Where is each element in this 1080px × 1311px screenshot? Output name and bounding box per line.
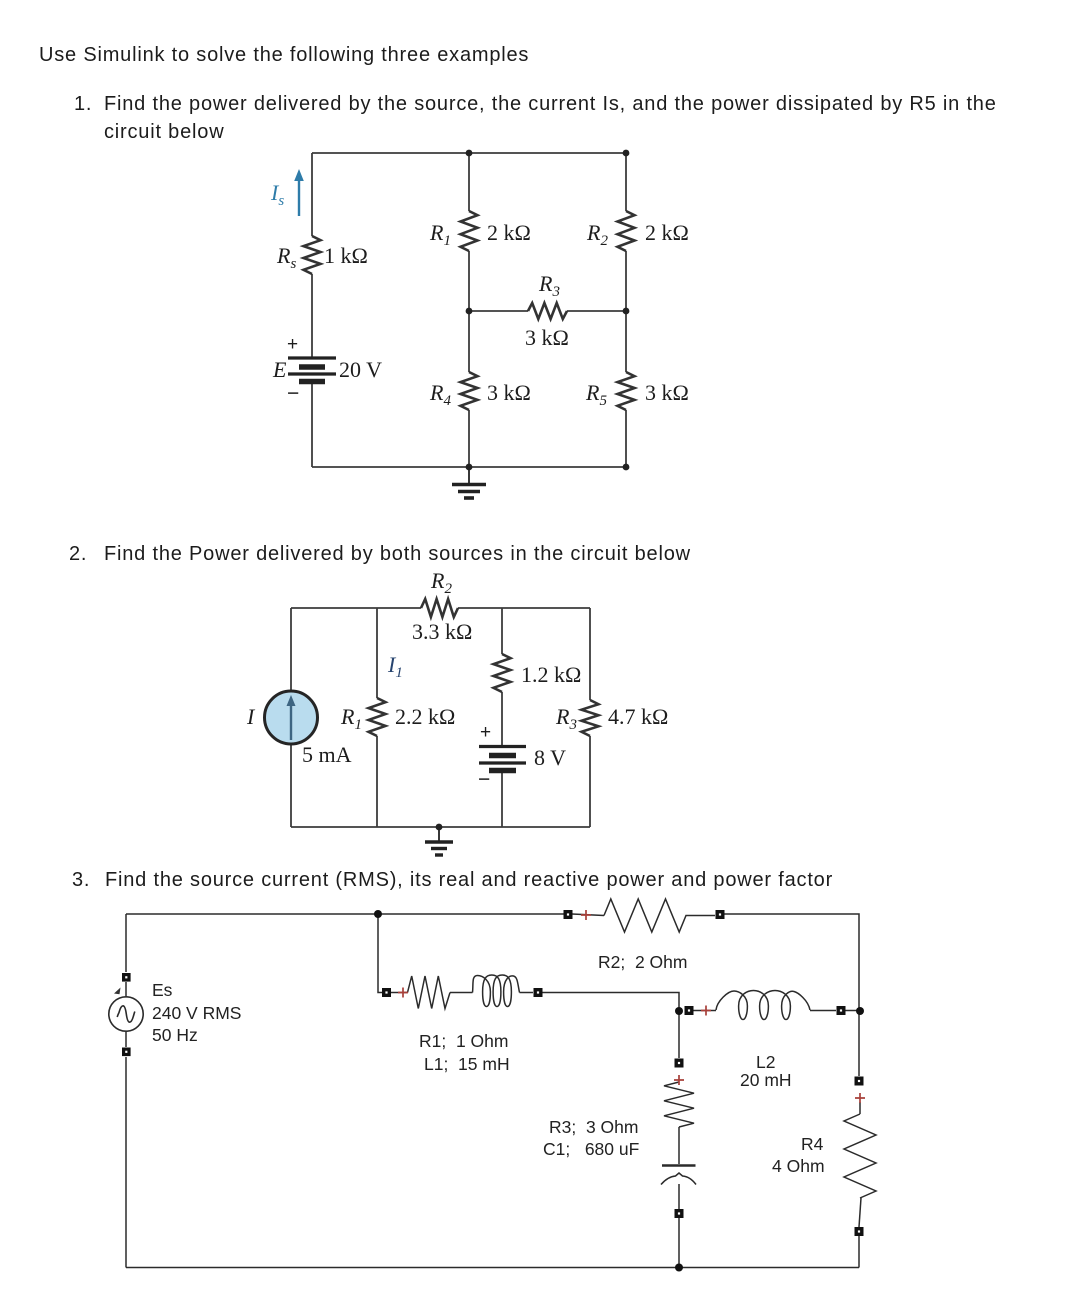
resistor R1 (2.2k)	[369, 698, 386, 736]
svg-text:20 mH: 20 mH	[740, 1070, 792, 1090]
item 1 text	[74, 90, 92, 118]
resistor R3	[664, 1082, 694, 1127]
svg-text:Is: Is	[270, 180, 284, 209]
wire Es bottom stub	[125, 1032, 127, 1047]
svg-text:1.2 kΩ: 1.2 kΩ	[521, 662, 581, 687]
labels circuit 3	[152, 952, 825, 1176]
node L2/right-wire junction	[856, 1007, 864, 1015]
wire L2 port to right wire	[845, 1010, 859, 1012]
svg-text:3.3 kΩ: 3.3 kΩ	[412, 619, 472, 644]
AC source Es	[109, 997, 143, 1031]
capacitor C1 plate bottom	[661, 1173, 696, 1185]
svg-text:3 kΩ: 3 kΩ	[525, 325, 569, 350]
wire R4 out	[859, 1198, 861, 1227]
wire R1 branch	[376, 608, 378, 827]
wire left branch middle	[311, 274, 313, 357]
polarity plus L2	[701, 1006, 711, 1016]
resistor R4	[844, 1114, 876, 1198]
ground	[452, 467, 486, 498]
node ground junction	[436, 824, 443, 831]
port R3C1 input	[675, 1059, 684, 1068]
wire L2 out	[810, 1010, 836, 1012]
wire R2 plus stub	[572, 914, 604, 916]
svg-text:R2; 2 Ohm: R2; 2 Ohm	[598, 952, 687, 972]
heading text	[39, 41, 529, 69]
wire cap to port	[678, 1184, 680, 1209]
resistor R3	[528, 303, 567, 319]
svg-text:R2: R2	[586, 220, 608, 249]
svg-text:240 V RMS: 240 V RMS	[152, 1003, 241, 1023]
wire top right	[458, 607, 590, 609]
svg-text:R1: R1	[340, 704, 362, 733]
current arrow Is	[294, 169, 304, 216]
svg-text:3 kΩ: 3 kΩ	[645, 380, 689, 405]
svg-text:4.7 kΩ: 4.7 kΩ	[608, 704, 668, 729]
wire R1-L1 link	[450, 992, 473, 994]
wire R4 port to bottom	[858, 1236, 860, 1268]
node A (R1/R3/R4 junction)	[466, 308, 473, 315]
wire bottom	[291, 826, 590, 828]
svg-text:R5: R5	[585, 380, 607, 409]
wire L1 out	[520, 992, 534, 994]
port Es terminal 2	[122, 1048, 131, 1057]
resistor R3 (4.7k)	[582, 700, 599, 736]
polarity plus R1	[398, 988, 408, 998]
item 3 text	[72, 866, 90, 894]
wire bottom	[312, 466, 626, 468]
wire middle branch center	[468, 251, 470, 372]
svg-text:−: −	[478, 768, 490, 791]
node bottom-right junction	[623, 464, 630, 471]
node top-middle junction	[466, 150, 473, 157]
ground	[425, 827, 453, 855]
capacitor C1 plate top	[662, 1164, 696, 1166]
svg-text:R4: R4	[429, 380, 451, 409]
svg-text:3 kΩ: 3 kΩ	[487, 380, 531, 405]
svg-text:R3: R3	[555, 704, 577, 733]
wire R3 right	[567, 310, 626, 312]
port Es terminal 1	[122, 973, 131, 982]
polarity plus R2	[581, 910, 591, 920]
node B (R2/R3/R5 junction)	[623, 308, 630, 315]
svg-text:L2: L2	[756, 1052, 775, 1072]
svg-text:2.2 kΩ: 2.2 kΩ	[395, 704, 455, 729]
svg-text:R4: R4	[801, 1134, 824, 1154]
battery 8V	[479, 747, 526, 771]
port R1L1 input	[382, 988, 391, 997]
wire right branch upper	[625, 153, 627, 211]
port R4 input	[855, 1077, 864, 1086]
svg-text:Rs: Rs	[276, 243, 296, 272]
svg-text:2 kΩ: 2 kΩ	[645, 220, 689, 245]
wire bottom	[126, 1267, 859, 1269]
wire left branch upper	[290, 608, 292, 691]
labels circuit 1	[270, 180, 689, 409]
wire left upper	[125, 914, 127, 972]
wire mid branch center	[501, 692, 503, 746]
wire R4 stub	[859, 1102, 861, 1114]
svg-text:1 kΩ: 1 kΩ	[324, 243, 368, 268]
resistor R2	[618, 211, 635, 251]
svg-text:+: +	[287, 334, 298, 355]
resistor Rs	[304, 236, 321, 274]
node top-right junction	[623, 150, 630, 157]
svg-text:8 V: 8 V	[534, 745, 566, 770]
resistor R1	[461, 211, 478, 251]
svg-text:R1; 1 Ohm: R1; 1 Ohm	[419, 1031, 508, 1051]
wire middle branch upper	[468, 153, 470, 211]
svg-text:4 Ohm: 4 Ohm	[772, 1156, 825, 1176]
svg-text:2 kΩ: 2 kΩ	[487, 220, 531, 245]
inductor L1	[473, 975, 520, 1007]
svg-text:−: −	[287, 382, 299, 405]
wire top	[126, 913, 568, 915]
wire middle branch lower	[468, 410, 470, 467]
svg-text:E: E	[272, 357, 287, 382]
wire mid branch lower	[501, 771, 503, 827]
resistor R1	[408, 976, 451, 1009]
wire top	[312, 152, 626, 154]
wire left lower	[125, 1057, 127, 1268]
svg-text:R3: R3	[538, 271, 560, 300]
wire drop to R1	[378, 914, 382, 993]
svg-text:+: +	[480, 722, 491, 743]
resistor 1.2k	[494, 654, 511, 692]
svg-text:20 V: 20 V	[339, 357, 382, 382]
svg-text:R1: R1	[429, 220, 451, 249]
wire left branch upper	[311, 153, 313, 236]
port L2 input	[685, 1006, 694, 1015]
polarity plus R4	[855, 1093, 865, 1103]
port R1L1 output	[534, 988, 543, 997]
svg-text:I1: I1	[387, 652, 403, 681]
wire R3 left	[469, 310, 528, 312]
svg-text:50 Hz: 50 Hz	[152, 1025, 198, 1045]
port L2 output	[837, 1006, 846, 1015]
wire Es top stub	[125, 982, 127, 996]
resistor R4	[461, 372, 478, 410]
node L2/R3C1 junction	[675, 1007, 683, 1015]
wire right branch	[589, 608, 591, 827]
resistor R2	[604, 899, 715, 932]
polarity plus R3C1	[674, 1075, 684, 1085]
source arrow glyph	[114, 988, 121, 995]
wire right branch center	[625, 251, 627, 372]
node bottom-middle junction	[466, 464, 473, 471]
node bottom junction	[675, 1264, 683, 1272]
wire mid branch upper	[501, 608, 503, 654]
wire top left	[291, 607, 421, 609]
port R3C1 output	[675, 1209, 684, 1218]
port R2 input	[564, 910, 573, 919]
svg-text:5 mA: 5 mA	[302, 742, 352, 767]
port R2 output	[716, 910, 725, 919]
wire R1 plus stub	[391, 992, 408, 994]
svg-text:R3; 3 Ohm: R3; 3 Ohm	[549, 1117, 638, 1137]
wire R3 zig to cap	[678, 1127, 680, 1164]
svg-text:C1; 680 uF: C1; 680 uF	[543, 1139, 639, 1159]
svg-text:Es: Es	[152, 980, 173, 1000]
svg-text:L1; 15 mH: L1; 15 mH	[424, 1054, 510, 1074]
current source I	[265, 691, 318, 744]
resistor R5	[618, 372, 635, 410]
inductor L2	[716, 991, 810, 1020]
wire R2 out to right corner	[724, 914, 859, 1076]
battery E	[288, 358, 336, 382]
wire right branch lower	[625, 410, 627, 467]
node top junction	[374, 910, 382, 918]
resistor R2 (3.3k)	[421, 599, 458, 617]
port R4 output	[855, 1227, 864, 1236]
svg-text:R2: R2	[430, 568, 452, 597]
wire L2 stub left	[693, 1010, 716, 1012]
item 2 text	[69, 540, 87, 568]
wire left branch lower	[290, 744, 292, 827]
wire L1 port to corner	[542, 993, 679, 1059]
wire R3C1 port to bottom	[678, 1218, 680, 1268]
svg-text:I: I	[246, 704, 256, 729]
wire left branch lower	[311, 382, 313, 467]
labels circuit 2	[246, 568, 668, 791]
